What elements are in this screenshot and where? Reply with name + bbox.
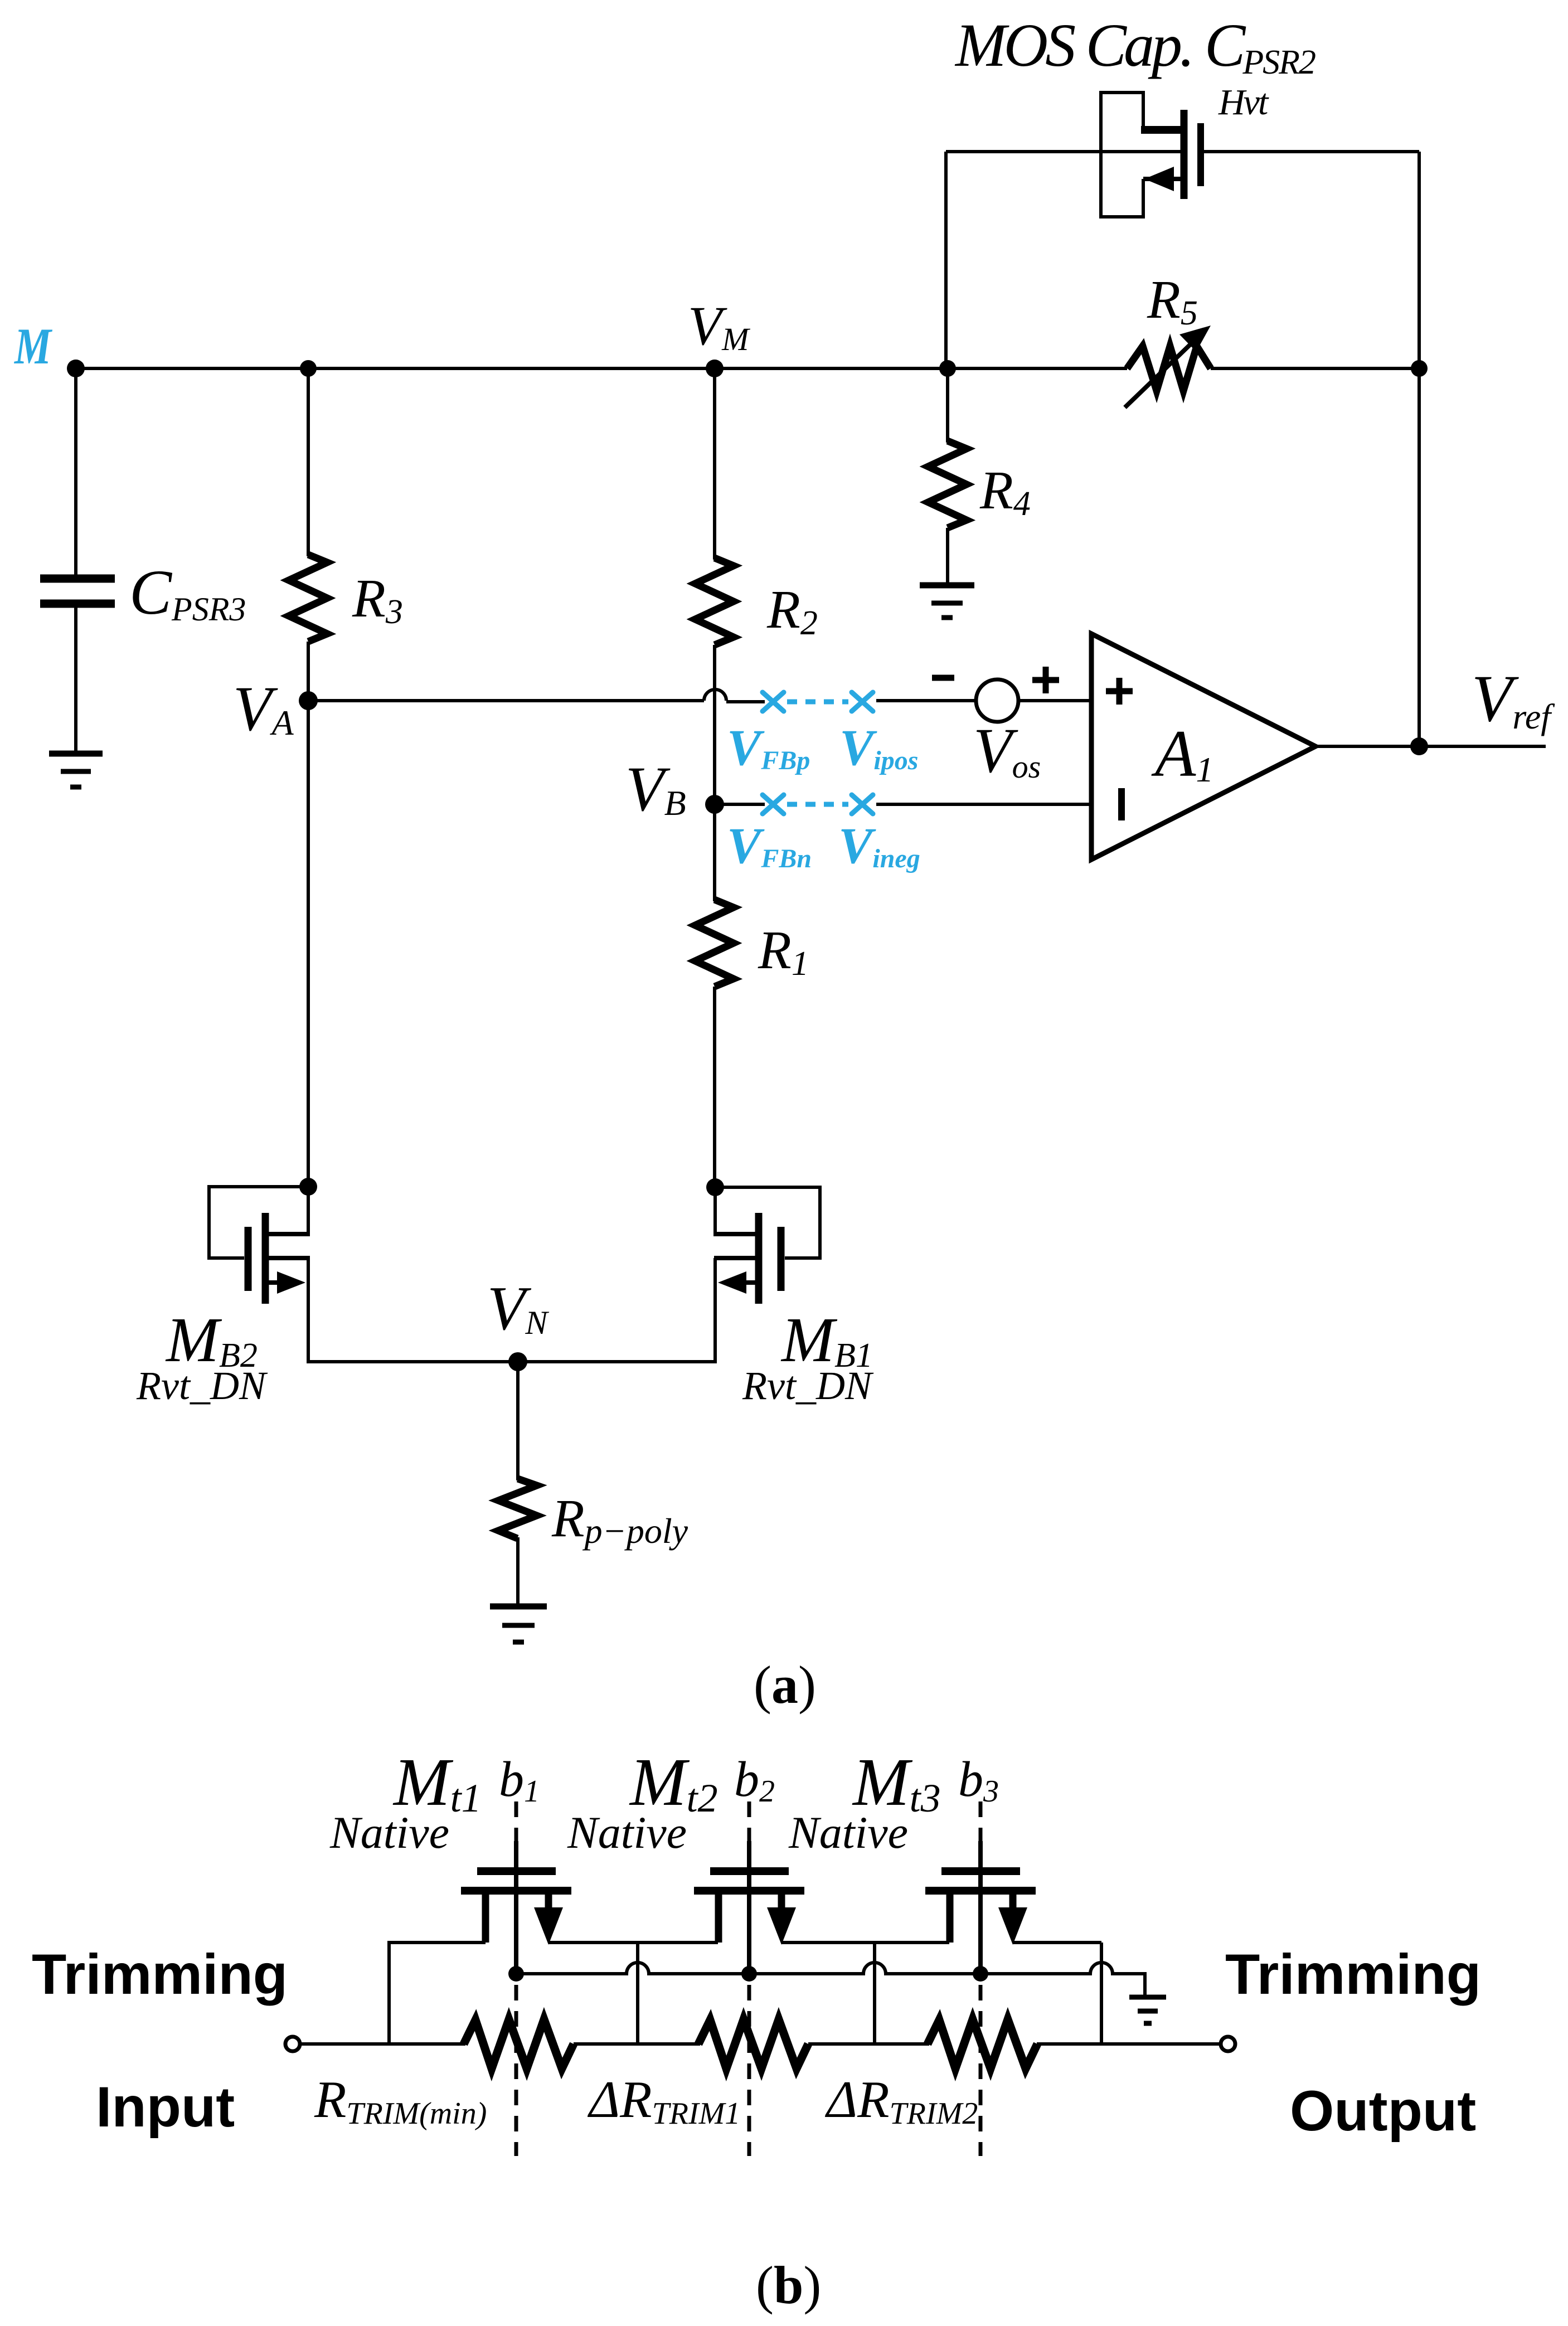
node M_B2 drain bbox=[299, 1178, 317, 1196]
ground figure b bbox=[1129, 1997, 1166, 2023]
ground under C_PSR3 bbox=[49, 754, 103, 787]
probe X V_ineg bbox=[852, 795, 873, 814]
terminal input circle bbox=[285, 2037, 300, 2051]
resistor R5 variable bbox=[1125, 326, 1211, 407]
wire M_t1 source drop bbox=[389, 1943, 486, 2044]
node bulk M_t3 bbox=[973, 1966, 988, 1982]
svg-text:Native: Native bbox=[788, 1807, 908, 1858]
wire M_t2 source link bbox=[638, 1941, 718, 1944]
wire M row left bbox=[76, 367, 1127, 370]
node V_ref bbox=[1410, 737, 1428, 755]
wire junction1 vertical bbox=[636, 1943, 639, 2044]
probe X V_FBn bbox=[763, 795, 784, 814]
probe X V_ipos bbox=[852, 692, 873, 711]
wire V_ineg to op-amp bbox=[876, 803, 1091, 806]
wire V_N row bbox=[308, 1360, 715, 1363]
dashed line b2 bbox=[747, 1801, 751, 2156]
svg-text:Native: Native bbox=[567, 1807, 687, 1858]
resistor R_TRIM(min) bbox=[464, 2019, 574, 2068]
wire C_PSR3 top bbox=[74, 368, 77, 577]
transistor M_B1 bbox=[714, 1187, 820, 1363]
wire R2 top bbox=[713, 368, 716, 560]
svg-text:Trimming: Trimming bbox=[1225, 1943, 1481, 2006]
wire top row left bbox=[946, 150, 1182, 153]
node M bbox=[67, 360, 85, 377]
wire right vertical bbox=[1417, 152, 1421, 746]
resistor R1 bbox=[695, 900, 734, 987]
wire bulk row bbox=[516, 1963, 1145, 1997]
svg-text:Native: Native bbox=[329, 1807, 449, 1858]
wire R_p-poly top bbox=[516, 1362, 520, 1480]
ground under R_p-poly bbox=[490, 1606, 547, 1642]
node bulk M_t2 bbox=[741, 1966, 757, 1982]
svg-text:Rvt_DN: Rvt_DN bbox=[742, 1363, 874, 1408]
svg-text:Output: Output bbox=[1290, 2079, 1476, 2143]
svg-text:M: M bbox=[13, 318, 52, 375]
wire top row right bbox=[1202, 150, 1419, 153]
svg-text:Rvt_DN: Rvt_DN bbox=[136, 1363, 268, 1408]
capacitor C_PSR3 bbox=[40, 579, 115, 604]
wire V_A row to probe bbox=[726, 700, 765, 703]
terminal output circle bbox=[1221, 2037, 1235, 2051]
svg-text:(a): (a) bbox=[754, 1655, 816, 1715]
wire Vos to op-amp bbox=[1018, 699, 1091, 702]
plus sign of Vos bbox=[1032, 667, 1059, 693]
dashed line b3 bbox=[979, 1801, 983, 2156]
op-amp A1 bbox=[1091, 634, 1315, 859]
wire R1 bottom bbox=[713, 987, 716, 1187]
node R4 top junction bbox=[939, 360, 956, 377]
wire R3 bottom bbox=[307, 642, 310, 1187]
resistor R3 bbox=[289, 555, 327, 642]
svg-text:(b): (b) bbox=[756, 2255, 821, 2315]
resistor R_p-poly bbox=[498, 1479, 537, 1538]
wire segment 3 bbox=[808, 2042, 929, 2046]
svg-text:Hvt: Hvt bbox=[1218, 82, 1269, 123]
resistor R2 bbox=[695, 558, 734, 645]
wire segment 2 bbox=[574, 2042, 700, 2046]
node V_N bbox=[508, 1352, 527, 1371]
wire R4 bottom bbox=[946, 528, 949, 585]
dashed link V_FBn to V_ineg bbox=[787, 802, 848, 807]
offset source V_os bbox=[976, 679, 1018, 722]
node V_M bbox=[706, 360, 724, 377]
node V_B bbox=[705, 795, 724, 814]
node bulk M_t1 bbox=[508, 1966, 524, 1982]
node V_A bbox=[299, 691, 318, 710]
svg-text:Input: Input bbox=[96, 2075, 235, 2139]
svg-text:Trimming: Trimming bbox=[32, 1943, 288, 2006]
wire op-amp output bbox=[1315, 745, 1546, 748]
transistor M_B2 bbox=[209, 1187, 310, 1363]
MOS capacitor C_PSR2 bbox=[1101, 93, 1201, 217]
transistor M_t3 bbox=[925, 1841, 1036, 1976]
wire junction3 vertical bbox=[1100, 1943, 1103, 2044]
wire junction2 vertical bbox=[873, 1943, 876, 2044]
wire output segment bbox=[1037, 2042, 1221, 2046]
wire V_B row bbox=[715, 803, 765, 806]
wire input segment bbox=[300, 2042, 465, 2046]
wire R_p-poly bottom bbox=[516, 1537, 520, 1605]
node R3 top junction bbox=[300, 360, 317, 377]
wire M row right bbox=[1211, 367, 1419, 370]
wire M_t3 source link bbox=[875, 1941, 949, 1944]
ground under R4 bbox=[920, 585, 974, 618]
wire V_A row bbox=[308, 699, 704, 702]
dashed link V_FBp to V_ipos bbox=[787, 700, 848, 705]
node right vertical junction bbox=[1411, 360, 1428, 377]
wire M_t1 drain link bbox=[548, 1941, 638, 1944]
node M_B1 drain bbox=[706, 1178, 724, 1196]
wire R4 top bbox=[946, 368, 949, 443]
resistor dR_TRIM2 bbox=[928, 2019, 1037, 2068]
transistor M_t1 bbox=[461, 1841, 571, 1976]
wire M_t3 drain link bbox=[1013, 1941, 1101, 1944]
wire V_ipos to Vos bbox=[876, 699, 977, 702]
resistor R4 bbox=[928, 441, 967, 528]
wire R2 bottom to V_B bbox=[713, 645, 716, 804]
probe X V_FBp bbox=[763, 692, 784, 711]
wire R3 top bbox=[307, 368, 310, 556]
wire M_t2 drain link bbox=[781, 1941, 875, 1944]
dashed line b1 bbox=[514, 1801, 518, 2156]
wire left vertical bbox=[944, 152, 948, 368]
resistor dR_TRIM1 bbox=[698, 2019, 808, 2068]
wire C_PSR3 bottom bbox=[74, 604, 77, 752]
wire R1 top bbox=[713, 804, 716, 901]
transistor M_t2 bbox=[694, 1841, 804, 1976]
minus sign of Vos bbox=[932, 675, 954, 681]
wire hop over R2 column bbox=[704, 689, 726, 701]
